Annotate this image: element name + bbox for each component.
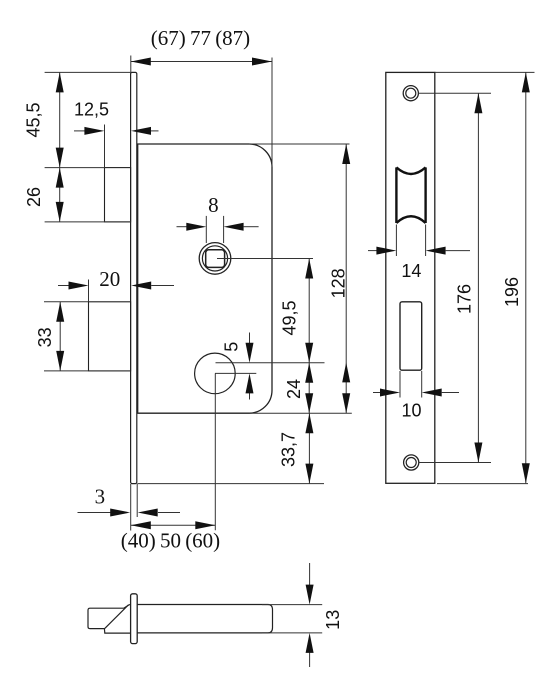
svg-text:(40) 50 (60): (40) 50 (60) (121, 529, 220, 553)
latch bolt protrusion box (side view) (105, 168, 131, 222)
dimension 20 (58, 280, 174, 302)
top extension line to 196 (435, 71, 535, 73)
svg-text:33: 33 (35, 327, 55, 347)
svg-text:5: 5 (222, 342, 242, 352)
left extension line latch top (45, 167, 105, 169)
spindle hole inner circle (202, 246, 227, 271)
faceplate front view (386, 72, 435, 483)
svg-text:13: 13 (323, 610, 343, 630)
dimension 33 (59, 302, 61, 371)
key cylinder hole circle (195, 353, 236, 394)
svg-text:24: 24 (284, 379, 304, 399)
roller latch spool shape (396, 167, 425, 223)
dimension 128 (345, 144, 347, 413)
dimension 12,5 (74, 125, 159, 168)
dimension 26 (59, 168, 61, 222)
spindle hole outer circle (199, 243, 231, 275)
dimension 14 (368, 225, 470, 257)
svg-text:14: 14 (401, 261, 421, 281)
svg-text:3: 3 (95, 485, 106, 509)
bottom extension line to 196 (437, 483, 528, 485)
dimension 33,7 (308, 413, 310, 483)
dimension 3 (78, 512, 181, 514)
faceplate back edge extension line below (136, 484, 138, 517)
extension line case bottom (249, 412, 352, 414)
svg-text:33,7: 33,7 (279, 432, 299, 467)
keyhole centre vertical line (214, 373, 216, 530)
dimension (40) 50 (60) (131, 524, 216, 526)
top screw hole (403, 86, 418, 101)
bottom view faceplate bar (131, 594, 138, 644)
dimension 13 (262, 563, 322, 667)
bottom view latch bolt outline (88, 605, 131, 633)
svg-text:10: 10 (401, 401, 421, 421)
keyhole centre horizontal line (215, 372, 256, 374)
svg-text:8: 8 (208, 193, 219, 217)
left extension line top of plate (45, 71, 132, 73)
svg-text:176: 176 (455, 284, 475, 314)
dimension 196 (525, 72, 527, 483)
lock case body side view (138, 144, 272, 413)
left extension line deadbolt bottom (44, 370, 89, 372)
left extension line deadbolt top (44, 301, 89, 303)
spindle square hole (206, 250, 225, 268)
spindle centre extension line (217, 258, 313, 260)
svg-text:12,5: 12,5 (74, 100, 109, 120)
svg-text:45,5: 45,5 (24, 102, 44, 137)
dimension 5 (249, 333, 251, 400)
svg-text:128: 128 (329, 268, 349, 298)
faceplate front edge extension line below (130, 484, 132, 531)
deadbolt protrusion box (side view) (89, 302, 131, 371)
left extension line latch bottom (45, 221, 131, 223)
faceplate side-view bar (131, 72, 137, 483)
svg-text:26: 26 (24, 187, 44, 207)
dimension 176 (477, 93, 479, 462)
bottom screw hole extension line (419, 462, 491, 464)
dimension (67) 77 (87) (131, 56, 272, 168)
svg-text:49,5: 49,5 (280, 300, 300, 335)
svg-text:(67) 77 (87): (67) 77 (87) (151, 26, 250, 50)
dimension 49,5 (308, 259, 310, 363)
deadbolt slot front view (400, 302, 422, 370)
top screw hole extension line (418, 92, 491, 94)
keyhole 5mm offset line (216, 362, 325, 364)
extension line case top (249, 143, 350, 145)
dimension 24 (308, 363, 310, 414)
bottom screw hole (404, 455, 419, 470)
dimension 45,5 (59, 72, 61, 167)
bottom view lock case (137, 605, 272, 633)
bottom view latch bevel diagonal (105, 605, 129, 629)
svg-text:196: 196 (502, 277, 522, 307)
dimension 10 (373, 371, 459, 398)
extension line case bottom to 33,7 (137, 483, 324, 485)
dimension 8 (177, 216, 259, 243)
svg-text:20: 20 (99, 267, 120, 291)
